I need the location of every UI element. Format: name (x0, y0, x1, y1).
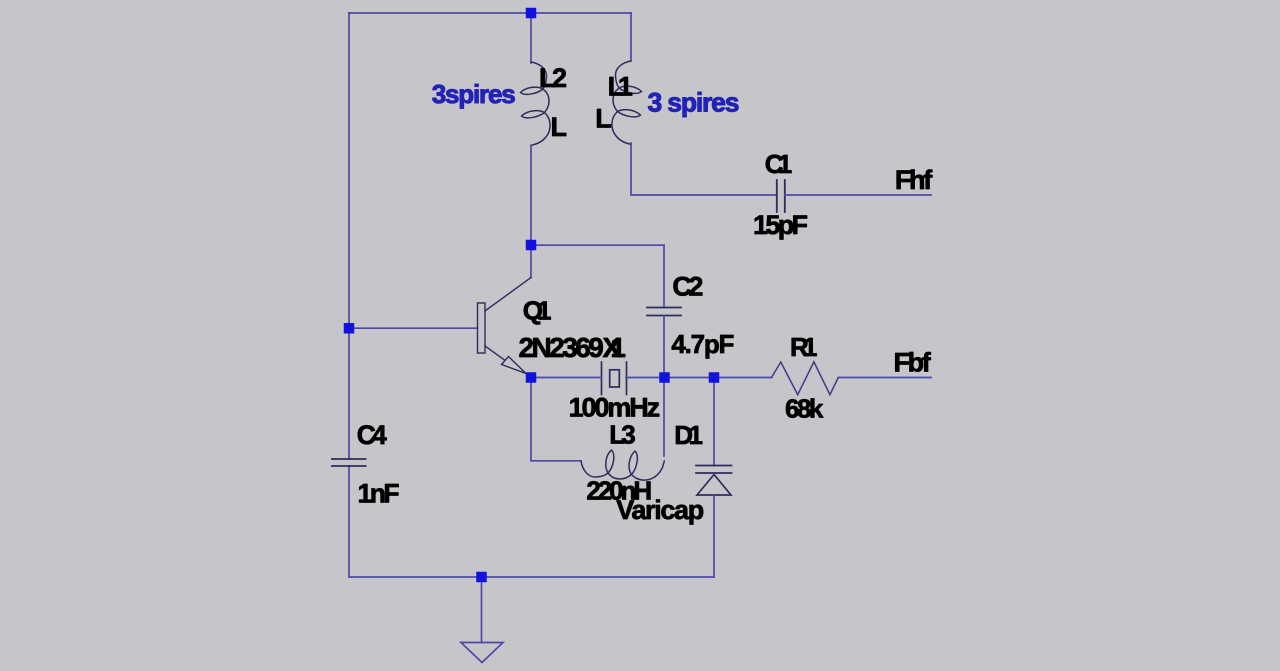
svg-text:68k: 68k (785, 393, 824, 423)
wire collector vertical (530, 245, 532, 278)
label L2 (539, 63, 567, 93)
transistor Q1 (478, 278, 532, 374)
svg-text:L3: L3 (609, 420, 636, 450)
svg-text:L2: L2 (539, 63, 567, 93)
ground (461, 643, 503, 663)
wire C1 to Fhf output (785, 194, 931, 196)
svg-text:Varicap: Varicap (616, 495, 704, 525)
junction node top rail (526, 8, 537, 19)
wire emitter node down to L3 (531, 383, 581, 461)
label 3 spires (648, 88, 740, 118)
svg-text:4.7pF: 4.7pF (671, 329, 734, 359)
junction node bottom rail / ground (476, 572, 487, 583)
svg-text:L: L (551, 112, 568, 142)
label 4.7pF value (671, 329, 734, 359)
wire L1 bottom lead to C1 (631, 143, 777, 195)
inductor L1 (612, 61, 642, 144)
diode D1 varicap (696, 466, 732, 496)
wire bottom rail (349, 576, 714, 578)
label 220nH value (586, 476, 652, 506)
label 1nF value (358, 479, 400, 509)
svg-text:R1: R1 (790, 332, 818, 362)
wire base lead (349, 327, 478, 329)
wire L2 bottom lead (530, 146, 532, 245)
label 15pF value (753, 210, 808, 240)
label L1 (608, 71, 633, 101)
label C2 (672, 272, 703, 302)
wire node A to C2 top (531, 244, 664, 246)
wire left rail lower (C4 bottom plate to bottom rail) (348, 466, 350, 577)
wire D1 to bottom rail (713, 495, 715, 577)
resistor R1 (772, 362, 839, 395)
node Fhf (895, 165, 933, 195)
wire C2 bottom lead (663, 316, 665, 373)
label 100mHz value (569, 393, 661, 423)
svg-text:C1: C1 (765, 149, 793, 179)
junction node emitter (526, 372, 537, 383)
wire node B to node C (669, 377, 709, 379)
wire L1 top lead (630, 13, 632, 60)
label L of L2 (551, 112, 568, 142)
label L of L1 (595, 103, 612, 133)
wire node C down to D1 (713, 383, 715, 466)
svg-text:D1: D1 (674, 420, 703, 450)
junction node collector (526, 240, 537, 251)
svg-text:15pF: 15pF (753, 210, 808, 240)
capacitor C1 (777, 180, 785, 212)
label 68k value (785, 393, 824, 423)
wire left rail upper (to C4 top plate) (348, 13, 350, 459)
label D1 (674, 420, 703, 450)
svg-text:Fhf: Fhf (895, 165, 933, 195)
label C1 (765, 149, 793, 179)
label C4 (357, 420, 387, 450)
wire R1 to Fbf output (838, 377, 931, 379)
inductor L2 (521, 62, 551, 145)
wire C2 top lead (663, 245, 665, 307)
label Q1 (523, 296, 552, 326)
junction node base / left rail (344, 323, 355, 334)
wire node B down to L3 right end (663, 383, 665, 456)
svg-text:C4: C4 (357, 420, 387, 450)
svg-text:3 spires: 3 spires (648, 88, 740, 118)
capacitor C2 (647, 308, 681, 316)
wire ground lead (481, 577, 483, 643)
wire node C to R1 (719, 377, 772, 379)
svg-text:2N2369: 2N2369 (519, 332, 604, 363)
label R1 (790, 332, 818, 362)
svg-text:C2: C2 (672, 272, 703, 302)
label Varicap (616, 495, 704, 525)
node Fbf (894, 347, 932, 377)
svg-text:Q1: Q1 (523, 296, 552, 326)
junction node C (D1/R1) (709, 372, 720, 383)
svg-text:3spires: 3spires (432, 79, 516, 109)
inductor L3 (581, 450, 664, 480)
label 2N2369 value (519, 332, 604, 363)
wire top rail (349, 12, 631, 14)
svg-text:L: L (595, 103, 612, 133)
crystal X1 (602, 362, 627, 395)
capacitor C4 (331, 459, 367, 466)
wire L2 top lead (530, 13, 532, 63)
svg-text:1nF: 1nF (358, 479, 400, 509)
svg-text:L1: L1 (608, 71, 633, 101)
junction node B (crystal/C2) (659, 372, 670, 383)
svg-text:Fbf: Fbf (894, 347, 932, 377)
svg-text:X1: X1 (603, 332, 627, 363)
label L3 (609, 420, 636, 450)
label X1 (603, 332, 627, 363)
wire emitter node to crystal (536, 377, 601, 379)
label 3spires (432, 79, 516, 109)
wire crystal to node B (626, 377, 659, 379)
svg-text:100mHz: 100mHz (569, 393, 661, 423)
